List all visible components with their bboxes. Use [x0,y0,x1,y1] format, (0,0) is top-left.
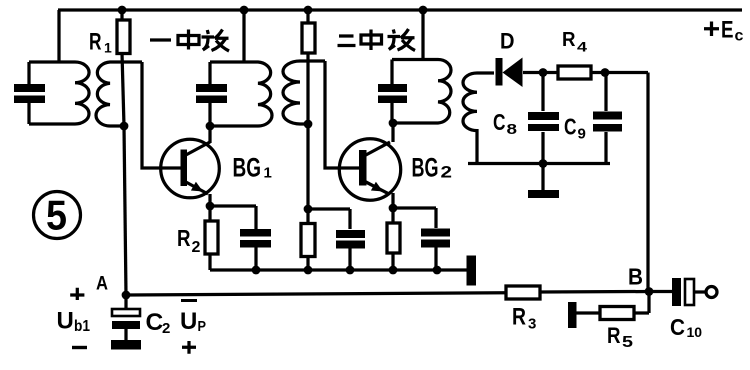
resistor BG2 emitter [387,208,400,270]
svg-text:2: 2 [162,320,170,337]
node junction dot T2 secondary bottom / bias line [304,120,313,129]
inductor T2 secondary winding [283,61,325,124]
label 一中放 (1st IF amplifier) [150,30,229,52]
svg-text:1: 1 [264,165,272,182]
svg-text:1: 1 [104,40,112,56]
transistor BG1 [161,139,220,198]
svg-text:8: 8 [507,121,518,138]
node junction dot rail/bias resistor stage 2 [304,6,313,15]
wire R4 output down to node B [646,73,649,292]
wire R1 junction down to node A [124,126,126,295]
label R4 [562,28,587,55]
node junction dot diode/R4/C8 [539,68,548,77]
label +Ec [704,16,744,44]
capacitor C2 (electrolytic) [112,295,140,341]
label BG2 [412,152,453,182]
svg-text:BG: BG [233,153,262,183]
wire T2 secondary top to BG2 base [325,61,360,168]
node junction dot bias divider tap [304,205,313,214]
wire BG1 collector to T2 bottom [208,126,211,143]
node junction dot BG2 collector / T3 [389,119,398,128]
ground below C2 [111,340,141,350]
inductor T3 secondary winding (detector coil) [463,73,494,164]
wire rail drop to T3 top [421,10,424,60]
transistor BG2 [339,139,400,200]
output terminal [706,287,717,298]
label BG1 [233,153,272,183]
ground left of R5 [568,302,577,328]
node junction dot rail/R1 [118,6,127,15]
svg-text:R: R [512,304,526,331]
svg-text:5: 5 [622,334,633,351]
svg-text:5: 5 [46,192,67,239]
svg-text:10: 10 [687,324,703,340]
wire BG2 emitter down [391,193,394,208]
svg-text:4: 4 [577,39,587,55]
svg-text:C: C [146,309,164,336]
wire node A to node B (AGC line) [126,292,649,296]
resistor R4 [558,66,648,79]
capacitor BG1 emitter bypass [210,206,271,270]
wire detector bottom line [468,162,610,165]
svg-text:R: R [89,29,102,56]
svg-text:2: 2 [192,239,201,256]
capacitor of tank T3 [378,60,407,124]
svg-text:3: 3 [528,316,536,333]
svg-text:A: A [96,274,108,295]
svg-text:P: P [198,318,207,335]
svg-text:D: D [500,29,515,54]
node junction dot BG1 emitter [206,202,215,211]
label + (Ub1 top polarity) [70,288,84,300]
svg-text:U: U [57,308,74,335]
capacitor C10 (output coupling) [649,278,706,306]
capacitor bias bypass stage 2 [308,209,365,270]
node junction dot detector bottom [539,159,548,168]
node junction dot R4/C9 [601,68,610,77]
label C2 [146,309,171,337]
node junction dot rail/T2 [240,6,249,15]
label C8 [493,109,517,138]
node junction dot BG1 collector / T2 [206,122,215,131]
wire rail drop to T1 primary top [57,10,60,62]
svg-text:c: c [735,28,744,45]
inductor T2 primary winding [210,62,272,126]
svg-text:BG: BG [412,152,439,182]
svg-text:R: R [607,323,621,348]
svg-text:b1: b1 [74,318,90,335]
node junction dot BG2 emitter [389,204,398,213]
label R3 [512,304,536,333]
svg-text:R: R [177,225,191,251]
resistor R5 [576,292,649,320]
resistor R3 [506,286,540,299]
svg-text:9: 9 [578,126,586,143]
capacitor of input tank T1 [14,62,45,124]
resistor bias stage 2 (lower) [301,124,315,270]
ground below C8 [528,164,559,199]
resistor R1 [117,10,130,126]
ground bar (emitter rail) [467,256,477,286]
svg-text:C: C [670,314,685,340]
svg-text:U: U [180,308,197,335]
node junction dot R1/T1 secondary bottom [120,122,129,131]
inductor T3 primary winding [392,60,451,124]
node junction dot bias cap/rail [346,266,355,275]
capacitor BG2 emitter bypass [393,208,450,270]
inductor T1 primary winding [29,62,89,124]
svg-text:C: C [493,109,506,135]
resistor bias stage 2 (upper) [302,10,315,124]
label - (Ub1 bottom polarity) [72,346,87,349]
inductor T1 secondary winding [96,62,142,126]
label Up with overbar [180,299,206,335]
svg-text:B: B [628,264,643,290]
label C10 [670,314,702,340]
figure number 5 in circle [34,192,81,239]
svg-text:R: R [562,28,576,51]
wire BG1 emitter down [208,194,211,206]
label 二中放 (2nd IF amplifier) [338,29,416,51]
wire +Ec supply rail (top) [58,8,742,11]
node junction dot BG2 emitter resistor/rail [389,266,398,275]
label Ub1 [57,308,91,336]
svg-text:2: 2 [441,163,453,182]
label C9 [564,114,586,143]
node A dot [122,291,131,300]
label R1 [89,29,112,56]
resistor R2 [205,206,218,270]
label R2 [177,225,201,256]
wire rail drop to T2 top [242,10,245,62]
wire T1 secondary top to BG1 base [142,62,181,168]
wire BG2 collector to T3 bottom [391,123,394,142]
label + (Up bottom polarity) [182,341,196,354]
node junction dot bypass1/rail [252,266,261,275]
label R5 [607,323,633,351]
node junction dot BG2 bypass/rail [433,266,442,275]
node junction dot bias2/rail [304,266,313,275]
capacitor of tank T2 [196,62,227,126]
svg-text:E: E [721,16,734,43]
node junction dot rail/T3 [419,6,428,15]
node B dot [645,287,654,296]
svg-text:C: C [564,114,577,140]
capacitor C8 [528,73,559,164]
capacitor C9 [593,73,622,164]
diode D (detector) [496,58,559,88]
wire bottom emitter rail [210,268,467,271]
